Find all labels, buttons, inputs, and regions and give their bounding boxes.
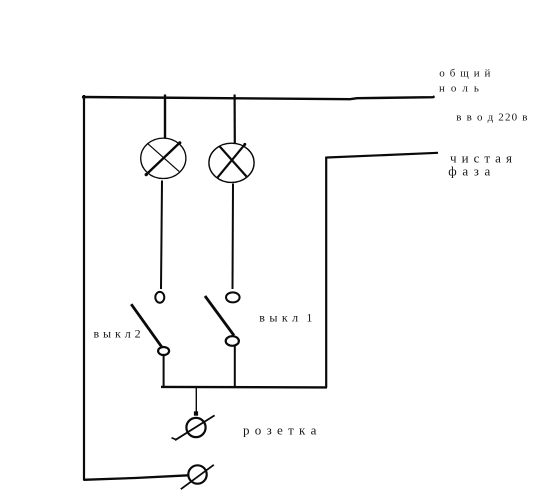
svg-text:н о л ь: н о л ь xyxy=(439,82,481,94)
lamp HL1 xyxy=(141,138,186,178)
switch SA1 lower contact xyxy=(226,336,239,346)
wire: lamp HL1 feed from neutral bus xyxy=(164,95,166,139)
switch SA2 lower contact xyxy=(158,347,169,355)
wire: stub to upper socket xyxy=(194,388,198,416)
label: выкл1 xyxy=(259,310,313,324)
wire: phase vertical drop xyxy=(325,157,327,388)
socket XS1 (upper) xyxy=(172,415,215,440)
svg-text:р о з е т к а: р о з е т к а xyxy=(243,423,317,438)
label: ввод 220в xyxy=(456,112,528,124)
label: общий ноль xyxy=(439,68,492,95)
wire: lamp HL2 feed from neutral bus xyxy=(234,95,236,144)
svg-text:в в о д 220 в: в в о д 220 в xyxy=(456,112,528,124)
lamp HL2 xyxy=(209,143,254,183)
wire: switch SA2 to bottom bus xyxy=(163,355,165,388)
svg-text:в ы к л 2: в ы к л 2 xyxy=(94,326,142,340)
wire: bottom phase bus xyxy=(161,386,327,389)
label: розетка xyxy=(243,423,317,438)
wire: switch SA1 to bottom bus xyxy=(234,346,236,388)
wire: bottom run to lower socket xyxy=(83,475,188,480)
svg-text:в ы к л 1: в ы к л 1 xyxy=(259,310,313,324)
wire: lamp HL1 to switch SA2 upper contact xyxy=(161,181,162,290)
svg-text:ф а з а: ф а з а xyxy=(448,163,491,178)
svg-text:о б щ и й: о б щ и й xyxy=(439,68,491,80)
switch SA2 lever (open) xyxy=(131,304,162,347)
wire: lamp HL2 to switch SA1 upper contact xyxy=(232,184,235,290)
switch SA1 upper contact xyxy=(226,292,240,302)
wire: left vertical neutral drop xyxy=(83,97,85,481)
switch SA2 upper contact xyxy=(155,292,164,303)
wire: top neutral bus from left corner to right end xyxy=(82,95,435,100)
switch SA1 lever (open) xyxy=(205,296,234,336)
label: выкл2 xyxy=(94,326,142,340)
wire: phase line from right xyxy=(327,153,438,158)
socket XS2 (lower) xyxy=(181,465,214,489)
label: чистая фаза xyxy=(448,150,513,178)
